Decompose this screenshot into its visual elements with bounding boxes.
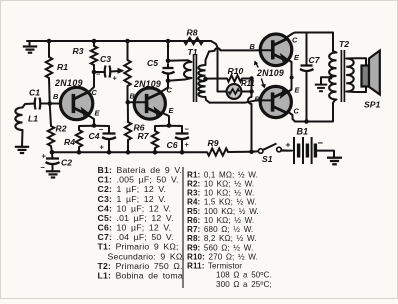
- svg-text:2N109: 2N109: [256, 68, 284, 78]
- resistor R10: [227, 75, 242, 81]
- svg-text:C6: 10 µF; 12 V.: C6: 10 µF; 12 V.: [98, 223, 172, 233]
- svg-text:T2: Primario 750 Ω.: T2: Primario 750 Ω.: [98, 261, 183, 271]
- transistor Q2 2N109: [134, 88, 165, 119]
- ground top-left: [29, 41, 31, 46]
- resistor R5: [127, 41, 129, 60]
- svg-text:C5: .01 µF; 12 V.: C5: .01 µF; 12 V.: [98, 213, 174, 223]
- Q3 collector wire to top rail: [287, 33, 296, 38]
- T2 primary: [329, 53, 336, 100]
- switch S1: [252, 150, 259, 153]
- svg-text:Secundario: 9 KΩ.: Secundario: 9 KΩ.: [108, 251, 186, 261]
- resistor R4: [76, 130, 82, 147]
- node rail-R5: [125, 39, 130, 44]
- capacitor C4: [103, 132, 116, 134]
- resistor R3: [93, 41, 95, 46]
- battery to ground: [315, 151, 334, 158]
- svg-text:−: −: [99, 125, 104, 134]
- svg-text:B: B: [250, 42, 256, 51]
- T1 primary: [168, 60, 192, 62]
- svg-text:R5: 100 KΩ; ½ W.: R5: 100 KΩ; ½ W.: [187, 207, 259, 216]
- T2 primary center tap to ground: [329, 76, 333, 80]
- svg-text:S1: S1: [262, 154, 273, 164]
- svg-text:T2: T2: [339, 39, 349, 49]
- Q4 emitter wire: [287, 90, 292, 93]
- node Q2 emitter: [167, 123, 172, 128]
- svg-text:C1: C1: [29, 88, 40, 98]
- supply vertical to switch (hops over Q4 base wire): [251, 79, 253, 98]
- resistor R6: [127, 102, 129, 122]
- svg-text:B: B: [130, 92, 136, 101]
- capacitor C6: [176, 132, 189, 134]
- svg-text:C2: C2: [61, 158, 72, 168]
- svg-text:−: −: [185, 125, 190, 134]
- svg-text:−: −: [318, 138, 324, 149]
- svg-text:R3: R3: [73, 46, 84, 56]
- svg-text:T1: Primario 9 KΩ;: T1: Primario 9 KΩ;: [98, 242, 179, 252]
- svg-text:C: C: [294, 107, 300, 116]
- svg-text:R1: 0,1 MΩ; ½ W.: R1: 0,1 MΩ; ½ W.: [187, 170, 258, 179]
- Q3 base wire with hop: [209, 50, 215, 53]
- node Q2 base junction: [126, 100, 131, 105]
- Q1 emitter wire: [89, 116, 95, 126]
- capacitor C3: [94, 71, 104, 73]
- speaker SP1: [346, 58, 366, 65]
- node Q1 base junction: [47, 101, 52, 106]
- capacitor C1: [34, 98, 37, 110]
- resistor R1: [48, 41, 50, 57]
- thermistor R11: [227, 84, 242, 99]
- svg-text:R9: 560 Ω; ½ W.: R9: 560 Ω; ½ W.: [187, 243, 253, 252]
- T1 secondary center tap: [203, 77, 208, 82]
- svg-text:C5: C5: [147, 58, 158, 68]
- svg-text:+: +: [100, 143, 105, 152]
- node R11 right: [249, 89, 254, 94]
- svg-text:2N109: 2N109: [54, 78, 83, 88]
- svg-text:R3: 10 KΩ; ½ W.: R3: 10 KΩ; ½ W.: [187, 189, 254, 198]
- svg-text:L1: Bobina de toma: L1: Bobina de toma: [98, 270, 183, 280]
- capacitor C5: [167, 41, 169, 61]
- transistor Q3 2N109: [260, 34, 292, 66]
- svg-text:SP1: SP1: [364, 100, 380, 110]
- svg-text:C7: .04 µF; 50 V.: C7: .04 µF; 50 V.: [98, 232, 174, 242]
- svg-text:C: C: [292, 36, 298, 45]
- T1 secondary bottom to Q4 base: [210, 100, 261, 102]
- svg-text:+: +: [42, 152, 47, 161]
- svg-text:C1: .005 µF; 50 V.: C1: .005 µF; 50 V.: [98, 175, 179, 185]
- svg-text:C2: 1 µF; 12 V.: C2: 1 µF; 12 V.: [98, 184, 167, 194]
- output bottom wire: [295, 101, 335, 122]
- transistor Q1 2N109: [60, 87, 92, 119]
- svg-text:+: +: [286, 140, 291, 150]
- svg-text:R6: 10 KΩ; ½ W.: R6: 10 KΩ; ½ W.: [187, 216, 254, 225]
- transistor Q4 2N109: [260, 86, 291, 117]
- node rail-R1: [47, 39, 52, 44]
- svg-text:L1: L1: [28, 114, 38, 124]
- svg-text:+: +: [113, 74, 118, 83]
- T2 secondary: [346, 59, 354, 92]
- svg-text:2N109: 2N109: [133, 79, 161, 89]
- resistor R2: [50, 104, 51, 127]
- C3 to R5 arrow wire: [111, 70, 119, 73]
- node Q1 emitter: [92, 123, 97, 128]
- T1 core: [193, 54, 195, 102]
- svg-text:R10: R10: [228, 66, 244, 76]
- svg-text:B1: B1: [297, 127, 309, 137]
- resistor R8: [184, 38, 203, 44]
- svg-text:R4: 1,5 KΩ; ½ W.: R4: 1,5 KΩ; ½ W.: [187, 198, 257, 207]
- svg-text:C3: C3: [100, 54, 111, 64]
- node R3-C3-collector: [92, 70, 97, 75]
- Q4 collector wire: [288, 112, 296, 122]
- bottom rail: [52, 151, 207, 153]
- resistor R7: [152, 131, 158, 148]
- node rail-R3: [92, 39, 97, 44]
- top supply rail: [27, 40, 211, 42]
- svg-text:C3: 1 µF; 12 V.: C3: 1 µF; 12 V.: [98, 194, 167, 204]
- Q3 emitter wire: [288, 60, 292, 63]
- node R10 right: [249, 76, 254, 81]
- svg-text:R8: R8: [187, 28, 198, 38]
- svg-text:−: −: [41, 163, 46, 172]
- svg-text:R7: 680 Ω; ½ W.: R7: 680 Ω; ½ W.: [187, 225, 253, 234]
- svg-text:300 Ω a 25ºC;: 300 Ω a 25ºC;: [216, 280, 272, 289]
- T2 core: [340, 50, 342, 102]
- svg-text:B: B: [255, 95, 261, 104]
- svg-text:R2: 10 KΩ; ½ W.: R2: 10 KΩ; ½ W.: [187, 179, 254, 188]
- output top wire: [295, 33, 333, 52]
- emitter join vertical: [291, 62, 293, 90]
- Q2 collector wire: [162, 81, 169, 92]
- capacitor C7: [306, 33, 308, 65]
- svg-text:R11: Termistor: R11: Termistor: [187, 262, 242, 271]
- svg-text:R10: 270 Ω; ½ W.: R10: 270 Ω; ½ W.: [187, 252, 258, 261]
- svg-text:R1: R1: [57, 62, 68, 72]
- capacitor C2: [51, 152, 53, 157]
- svg-text:R4: R4: [64, 137, 75, 147]
- parts list divider: [182, 167, 184, 288]
- resistor R9: [207, 148, 228, 155]
- Q1 collector wire: [89, 72, 94, 92]
- svg-text:R2: R2: [56, 124, 67, 134]
- svg-text:B: B: [53, 92, 59, 101]
- node rail-T1: [166, 39, 171, 44]
- svg-text:R9: R9: [208, 138, 219, 148]
- svg-text:R11: R11: [241, 79, 255, 88]
- T1 secondary: [206, 52, 210, 66]
- svg-text:B1: Batería de 9 V.: B1: Batería de 9 V.: [98, 165, 183, 175]
- Q2 emitter wire: [162, 113, 170, 126]
- svg-text:108 Ω a 50ºC.: 108 Ω a 50ºC.: [216, 271, 272, 280]
- svg-text:R8: 8,2 KΩ; ½ W.: R8: 8,2 KΩ; ½ W.: [187, 234, 257, 243]
- svg-text:C6: C6: [167, 140, 178, 150]
- svg-text:C4: 10 µF; 12 V.: C4: 10 µF; 12 V.: [98, 203, 172, 213]
- svg-text:C7: C7: [309, 55, 321, 65]
- R8 drop vertical (crosses base wire): [218, 48, 227, 92]
- antenna coil L1: [23, 104, 36, 108]
- svg-text:+: +: [185, 140, 190, 149]
- svg-text:−: −: [96, 70, 101, 79]
- svg-text:R7: R7: [138, 131, 150, 141]
